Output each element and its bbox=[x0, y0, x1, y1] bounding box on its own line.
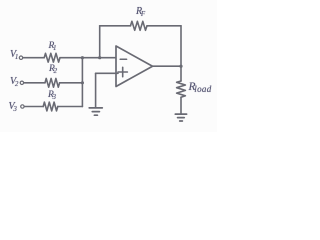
wire V3 input to resistor R3 bbox=[24, 106, 43, 108]
label Rload bbox=[189, 81, 212, 93]
ground (op-amp + input) bbox=[89, 108, 102, 115]
resistor R2 bbox=[45, 78, 60, 87]
wire R2 to bus bbox=[60, 82, 83, 84]
node A: summing junction dot at bus bbox=[81, 56, 84, 59]
resistor R3 bbox=[43, 102, 58, 111]
terminal circle V1 bbox=[19, 56, 22, 59]
label R2 bbox=[49, 64, 57, 74]
label R1 bbox=[49, 41, 57, 51]
label V3 bbox=[9, 101, 17, 112]
terminal circle V2 bbox=[20, 81, 23, 84]
wire output right vertical down bbox=[180, 26, 182, 81]
wire Rload to ground bbox=[180, 97, 182, 113]
node D: output junction dot bbox=[179, 65, 182, 68]
wire R3 to bus corner bbox=[58, 106, 83, 108]
wire vertical bus joining V1 V2 V3 rows bbox=[81, 58, 83, 107]
resistor R1 bbox=[44, 53, 60, 62]
node C: junction dot V2 row on bus bbox=[81, 81, 84, 84]
wire non-inverting to ground bbox=[95, 73, 97, 107]
wire feedback top right segment bbox=[147, 25, 181, 27]
resistor Rload (vertical) bbox=[177, 81, 186, 97]
op-amp minus sign bbox=[120, 58, 126, 60]
terminal circle V3 bbox=[21, 105, 24, 108]
node B: feedback junction dot bbox=[98, 56, 101, 59]
wire V1 input to resistor R1 bbox=[23, 57, 44, 59]
wire R1 to inverting input bbox=[60, 57, 116, 59]
wire V2 input to resistor R2 bbox=[24, 82, 45, 84]
wire feedback top left segment bbox=[100, 25, 131, 27]
label V1 bbox=[10, 49, 18, 60]
label RF bbox=[136, 6, 145, 17]
op-amp U1 triangle bbox=[116, 46, 153, 87]
wire non-inverting input bbox=[96, 72, 118, 74]
wire feedback vertical up bbox=[99, 26, 101, 58]
wire op-amp output bbox=[153, 65, 182, 67]
label V2 bbox=[10, 76, 18, 87]
resistor RF bbox=[131, 21, 147, 30]
op-amp plus sign bbox=[118, 67, 127, 76]
label R3 bbox=[48, 90, 56, 100]
ground (output load) bbox=[175, 114, 186, 121]
